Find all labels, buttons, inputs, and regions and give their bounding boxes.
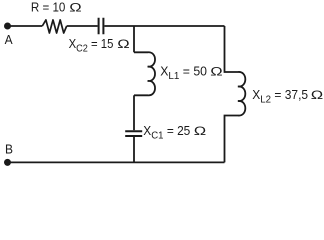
svg-text:R = 10: R = 10 bbox=[31, 0, 66, 15]
wire A to resistor bbox=[8, 25, 43, 27]
bottom wire bbox=[8, 161, 225, 163]
wire junction node to XL1 bbox=[133, 26, 135, 52]
svg-text:Ω: Ω bbox=[210, 65, 222, 78]
terminal A bbox=[4, 23, 11, 30]
resistor R bbox=[42, 20, 66, 33]
svg-text:Ω: Ω bbox=[194, 125, 206, 138]
wire XL1 to XC1 bbox=[133, 95, 135, 130]
inductor XL1 bbox=[134, 52, 155, 95]
inductor XL2 branch wire bbox=[225, 26, 246, 162]
svg-text:XC1 = 25: XC1 = 25 bbox=[143, 123, 190, 142]
svg-text:Ω: Ω bbox=[117, 38, 129, 51]
svg-text:Ω: Ω bbox=[311, 89, 323, 102]
wire resistor to XC2 bbox=[67, 25, 98, 27]
capacitor XC2 plates bbox=[99, 18, 104, 35]
svg-text:XL2 = 37,5: XL2 = 37,5 bbox=[252, 87, 308, 106]
svg-text:XL1 = 50: XL1 = 50 bbox=[160, 63, 207, 82]
wire XC2 to top-right corner bbox=[104, 25, 224, 27]
svg-text:B: B bbox=[5, 142, 13, 157]
svg-text:Ω: Ω bbox=[69, 1, 81, 14]
terminal B bbox=[4, 159, 11, 166]
capacitor XC1 plates bbox=[125, 131, 142, 136]
wire XC1 to bottom wire bbox=[133, 137, 135, 163]
svg-text:A: A bbox=[5, 32, 14, 47]
svg-text:XC2 = 15: XC2 = 15 bbox=[69, 36, 114, 55]
